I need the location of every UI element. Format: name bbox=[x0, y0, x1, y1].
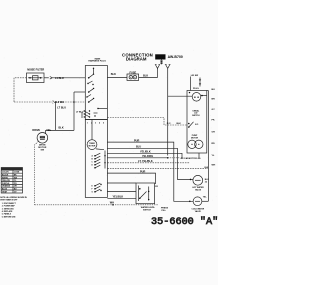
wire NC to unbalance switch bbox=[107, 118, 187, 126]
svg-text:4. REPLACE: 4. REPLACE bbox=[2, 210, 13, 213]
wire harness to fuse bbox=[107, 73, 127, 78]
svg-text:DRIVE: DRIVE bbox=[32, 129, 40, 132]
wire L2 (filter left, down and right) bbox=[14, 78, 85, 104]
svg-text:5. PANELS: 5. PANELS bbox=[2, 213, 12, 216]
wire bottom bus bbox=[35, 204, 159, 206]
wire from model plate down bbox=[160, 60, 163, 65]
svg-text:YEL/BLK: YEL/BLK bbox=[113, 195, 124, 198]
svg-text:DIAGRAM: DIAGRAM bbox=[126, 57, 147, 62]
svg-text:MOTOR: MOTOR bbox=[191, 138, 199, 140]
svg-text:BLK: BLK bbox=[177, 123, 182, 125]
capacitor C1 bbox=[181, 153, 201, 160]
svg-text:PK: PK bbox=[212, 120, 215, 122]
svg-text:RD: RD bbox=[212, 143, 216, 145]
svg-text:GRAY: GRAY bbox=[2, 190, 8, 193]
wire Y2 drop bbox=[167, 68, 169, 155]
wire LT YEL/BLK bbox=[107, 162, 190, 164]
svg-text:WHITE: WHITE bbox=[2, 177, 9, 179]
timer terminal row bbox=[87, 122, 104, 125]
svg-text:YELLOW: YELLOW bbox=[2, 180, 10, 182]
svg-text:L1 BLK: L1 BLK bbox=[55, 77, 64, 80]
lid switch stub bbox=[191, 75, 202, 91]
pump motor label bbox=[191, 135, 199, 139]
svg-text:CAPACITOR: CAPACITOR bbox=[184, 157, 197, 160]
svg-text:YEL/ORG: YEL/ORG bbox=[142, 155, 153, 158]
svg-text:F: F bbox=[92, 189, 93, 191]
svg-text:3: 3 bbox=[95, 123, 96, 125]
svg-text:WH: WH bbox=[110, 202, 114, 205]
svg-text:YEL: YEL bbox=[46, 129, 51, 132]
pin 2 bbox=[88, 88, 94, 93]
label pressure fill bbox=[161, 207, 169, 212]
svg-text:1. DISCONNECT: 1. DISCONNECT bbox=[2, 203, 17, 205]
svg-text:COLOR: COLOR bbox=[2, 172, 9, 174]
wire BLU to hot valve bbox=[107, 146, 192, 180]
svg-text:PUR: PUR bbox=[140, 170, 145, 173]
unbalance/pump box U1 bbox=[187, 91, 207, 154]
timer contact labels bbox=[92, 155, 94, 194]
wire motor return (down-left to bottom bus) bbox=[35, 141, 39, 205]
svg-text:LT BLU: LT BLU bbox=[57, 107, 66, 110]
title CONNECTION DIAGRAM bbox=[122, 52, 153, 61]
unbalance switch label bbox=[192, 109, 200, 117]
svg-text:LID SW: LID SW bbox=[191, 75, 198, 77]
svg-text:BR: BR bbox=[212, 99, 216, 101]
svg-text:6. BEFORE USE: 6. BEFORE USE bbox=[2, 216, 16, 218]
unbalance contacts bbox=[188, 122, 199, 128]
svg-text:MOTOR: MOTOR bbox=[89, 145, 96, 147]
svg-text:WH: WH bbox=[212, 165, 216, 167]
terminal labels right margin bbox=[212, 89, 216, 167]
svg-text:LT BLU: LT BLU bbox=[76, 111, 84, 113]
svg-text:OR: OR bbox=[212, 132, 216, 134]
wire into buzzer bbox=[168, 95, 193, 97]
svg-text:BU: BU bbox=[212, 89, 216, 91]
legend table bbox=[1, 168, 22, 194]
svg-text:BLUE: BLUE bbox=[2, 189, 8, 191]
connector Y1 bbox=[155, 65, 160, 78]
svg-text:CODE: CODE bbox=[14, 172, 20, 174]
svg-text:BLK: BLK bbox=[111, 73, 116, 76]
connector Y2 bbox=[165, 65, 171, 69]
svg-text:PUR: PUR bbox=[134, 139, 139, 142]
svg-text:LT. YEL/BLK: LT. YEL/BLK bbox=[138, 160, 153, 163]
svg-text:NOISE FILTER: NOISE FILTER bbox=[27, 68, 44, 71]
cold water valve V2 bbox=[189, 196, 207, 213]
svg-text:2. POWER BEF: 2. POWER BEF bbox=[2, 206, 16, 208]
wire to water level sw left bbox=[107, 182, 136, 184]
timer contacts upper bbox=[94, 151, 106, 169]
wire LT BLU drop bbox=[56, 102, 67, 130]
svg-text:BLK: BLK bbox=[143, 75, 148, 78]
node J1 bbox=[55, 101, 57, 103]
wire right bus bbox=[202, 91, 209, 202]
svg-text:BLU: BLU bbox=[136, 146, 141, 149]
noise filter FL1 bbox=[27, 68, 45, 82]
svg-text:HARNESS PLUG: HARNESS PLUG bbox=[88, 60, 106, 63]
pump motor M2 bbox=[188, 140, 203, 148]
svg-text:SWITCH: SWITCH bbox=[143, 210, 151, 212]
hot water valve V1 bbox=[190, 175, 210, 191]
svg-text:N.C.: N.C. bbox=[195, 124, 199, 126]
svg-text:4: 4 bbox=[99, 122, 100, 125]
wire PUR to water level sw bbox=[107, 170, 155, 184]
svg-text:22: 22 bbox=[205, 182, 207, 184]
svg-text:PLUG: PLUG bbox=[193, 88, 199, 90]
model plate (black box) bbox=[155, 54, 183, 59]
buzzer B1 bbox=[189, 92, 207, 101]
pin 3 bbox=[88, 98, 94, 103]
fuse F1 bbox=[127, 72, 139, 81]
wire YEL/BLK to capacitor bbox=[107, 151, 182, 154]
svg-text:YEL/BLK: YEL/BLK bbox=[140, 151, 151, 154]
svg-text:VALVE: VALVE bbox=[195, 188, 202, 191]
wire timer bottom to water level bbox=[107, 195, 136, 198]
wire BLK to right bus bbox=[107, 168, 208, 170]
wire to water level sw mid bbox=[107, 191, 136, 193]
timer contacts lower bbox=[94, 183, 102, 192]
water level switch S2 bbox=[136, 183, 158, 204]
main harness plug P1 bbox=[85, 57, 107, 119]
svg-text:L2 WH: L2 WH bbox=[56, 101, 64, 104]
wire fuse to Y1 bbox=[139, 75, 158, 78]
pin 1 bbox=[88, 68, 94, 79]
node J2 bbox=[73, 101, 75, 103]
wire L1 (filter to harness) bbox=[44, 77, 85, 80]
svg-text:1: 1 bbox=[87, 123, 88, 125]
harness inner contacts bbox=[86, 81, 107, 109]
svg-text:BLK: BLK bbox=[59, 127, 64, 130]
svg-text:BLACK: BLACK bbox=[2, 174, 9, 177]
svg-text:GY: GY bbox=[212, 109, 216, 111]
svg-text:ORANGE: ORANGE bbox=[2, 185, 11, 188]
svg-text:VALVE: VALVE bbox=[195, 210, 202, 213]
svg-text:SWITCH: SWITCH bbox=[192, 115, 200, 117]
timer motor TM bbox=[87, 120, 104, 150]
node J3 bbox=[112, 204, 114, 206]
notes text block bbox=[0, 196, 27, 218]
scan speckle (decorative) bbox=[2, 50, 216, 221]
label water level switch bbox=[141, 206, 156, 212]
svg-text:N.C.: N.C. bbox=[167, 123, 172, 125]
svg-text:PURPLE: PURPLE bbox=[2, 183, 10, 185]
wire motor feed bbox=[46, 92, 86, 134]
pin block bbox=[82, 110, 98, 118]
svg-text:3. SERVICING: 3. SERVICING bbox=[2, 208, 14, 210]
timer T1 bbox=[85, 120, 107, 198]
svg-text:35-6600 "A": 35-6600 "A" bbox=[151, 216, 218, 228]
drive motor M1 bbox=[32, 129, 51, 152]
wire YEL/ORG to pump bbox=[107, 155, 180, 159]
svg-text:5: 5 bbox=[103, 123, 104, 125]
svg-text:AW-B700: AW-B700 bbox=[168, 55, 183, 59]
wire PUR to cold valve bbox=[107, 139, 193, 201]
svg-text:FILL: FILL bbox=[162, 210, 167, 212]
svg-text:WITH TIMER IN OFF: WITH TIMER IN OFF bbox=[0, 199, 18, 201]
